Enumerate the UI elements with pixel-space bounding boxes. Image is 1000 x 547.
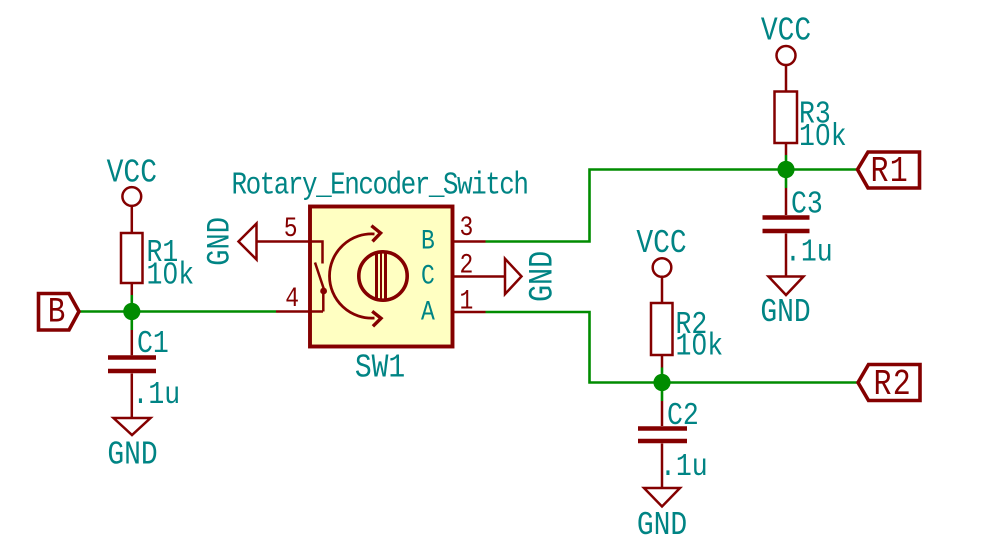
svg-text:C1: C1: [137, 326, 169, 362]
svg-text:B: B: [48, 292, 66, 332]
svg-text:R2: R2: [874, 364, 912, 405]
svg-text:5: 5: [284, 213, 298, 245]
svg-text:.1u: .1u: [133, 377, 181, 413]
svg-text:4: 4: [285, 283, 299, 315]
svg-text:GND: GND: [637, 507, 687, 545]
svg-text:SW1: SW1: [355, 349, 405, 387]
svg-text:1: 1: [460, 286, 474, 318]
svg-text:VCC: VCC: [761, 12, 811, 50]
svg-text:GND: GND: [524, 251, 562, 302]
svg-text:R1: R1: [871, 151, 909, 192]
svg-text:C3: C3: [791, 186, 823, 222]
svg-text:GND: GND: [760, 294, 810, 332]
svg-text:Rotary_Encoder_Switch: Rotary_Encoder_Switch: [232, 167, 528, 203]
svg-text:VCC: VCC: [107, 154, 157, 192]
svg-text:C2: C2: [667, 398, 699, 434]
svg-text:C: C: [421, 261, 435, 293]
svg-text:GND: GND: [107, 436, 157, 474]
svg-text:3: 3: [460, 212, 474, 244]
svg-text:VCC: VCC: [636, 225, 686, 263]
svg-text:.1u: .1u: [785, 234, 833, 270]
svg-text:.1u: .1u: [660, 449, 708, 485]
svg-text:B: B: [421, 226, 435, 258]
svg-text:2: 2: [460, 250, 474, 282]
svg-text:GND: GND: [201, 217, 238, 266]
svg-text:A: A: [421, 297, 435, 329]
